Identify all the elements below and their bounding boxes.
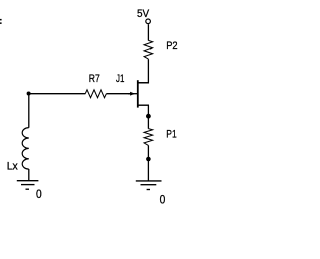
svg-text:J1: J1 (116, 73, 124, 85)
svg-text:P1: P1 (166, 128, 176, 140)
svg-text:P2: P2 (166, 40, 177, 52)
junction dot left node (27, 92, 31, 96)
wire R7 to gate (106, 93, 134, 95)
ground 0 (left) (17, 181, 39, 190)
channel bar (137, 80, 139, 107)
wire gate net: left node to R7 (29, 93, 86, 95)
clipped text fragment at left edge (0, 19, 2, 24)
svg-text:0: 0 (160, 193, 166, 207)
junction dot source/P1 node (146, 114, 151, 119)
node 5V terminal circle (146, 19, 151, 24)
junction dot below P1 (146, 157, 151, 162)
svg-text:0: 0 (36, 187, 42, 201)
gate arrowhead (130, 92, 135, 96)
resistor P2 (144, 40, 153, 59)
source lead (138, 104, 150, 106)
resistor P1 (144, 129, 153, 146)
drain lead (138, 82, 150, 84)
transistor J1 (JFET) (128, 80, 149, 107)
wire P1 to right ground (147, 145, 149, 180)
svg-text:R7: R7 (89, 73, 100, 85)
svg-text:Lx: Lx (7, 161, 18, 173)
wire Lx to left ground (28, 169, 30, 180)
P2 mid-wedge mark (150, 48, 153, 50)
resistor R7 (85, 90, 106, 98)
inductor Lx (22, 128, 29, 170)
wire 5V circle to P2 (147, 24, 149, 40)
wire source corner down to node (147, 105, 149, 129)
svg-text:5V: 5V (137, 8, 150, 20)
wire P2 to drain corner (138, 59, 148, 83)
gate lead (128, 93, 137, 95)
ground 0 (right) (136, 181, 162, 190)
wire left node down to Lx (28, 94, 30, 128)
